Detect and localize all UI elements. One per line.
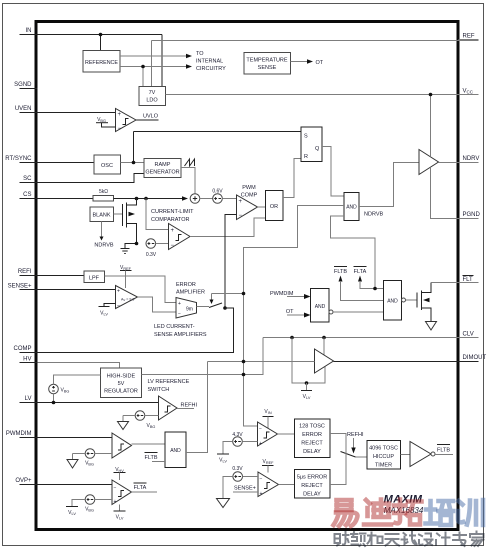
watermark char pei [426,501,454,525]
node DIMOUT input bus tap [242,360,246,364]
watermark text rf antenna expert [335,532,484,547]
svg-text:0.6V: 0.6V [212,189,223,195]
svg-text:DELAY: DELAY [303,492,321,498]
svg-text:DIMOUT: DIMOUT [463,355,487,361]
node CLV branch 1 [290,336,294,340]
pin DIMOUT [459,355,487,362]
svg-text:−: − [171,243,175,249]
svg-text:GENERATOR: GENERATOR [145,170,179,176]
wire CLV rail [263,337,459,339]
node CLV branch 2 [322,336,326,340]
ramp waveform icon [185,159,195,166]
svg-text:R: R [304,154,308,160]
svg-text:FLTB: FLTB [437,448,450,454]
node IN-reference junction [99,33,103,37]
block 128 tosc error reject delay [295,419,331,458]
source VHV of OVP comparator [114,467,126,480]
wire CS after resistor [114,196,189,200]
svg-text:+: + [239,199,243,205]
wire buffer supply left [292,338,325,384]
ground blanking source [121,244,137,254]
wire thermal AND output [333,311,384,313]
watermark char yi [334,500,358,526]
comparator UVLO [116,109,137,133]
svg-text:SENSE+: SENSE+ [234,486,256,492]
svg-text:REFHI: REFHI [347,432,364,438]
svg-text:0.3V: 0.3V [146,252,157,258]
label to internal circuitry [196,51,226,72]
ramp generator block [144,159,181,178]
svg-text:−: − [118,126,122,132]
gate AND thermal-dim [311,289,334,323]
source 0.6V offset [200,189,237,204]
svg-text:VLV: VLV [116,515,124,521]
svg-text:CLV: CLV [463,332,474,338]
ground 0.3V sense [217,499,230,508]
wire buffer supply right [323,338,325,356]
comparator VIN-UV [258,422,278,447]
node regulator output bus tap [242,373,246,377]
svg-text:SENSE AMPLIFIERS: SENSE AMPLIFIERS [154,332,207,338]
svg-text:TIMER: TIMER [375,463,392,469]
pin SGND [14,82,37,89]
svg-text:PWMDIM: PWMDIM [6,431,32,437]
svg-text:LED CURRENT-: LED CURRENT- [154,324,195,330]
svg-text:OSC: OSC [101,163,113,169]
svg-text:OT: OT [286,309,294,315]
svg-text:VBG: VBG [147,423,156,429]
svg-text:FLTB: FLTB [334,269,347,275]
svg-text:COMP: COMP [14,346,32,352]
wire RT/SYNC to OSC [38,162,95,164]
blanking block BLANK [90,207,123,222]
svg-text:FLT: FLT [463,277,474,283]
source 0.3V sense threshold [223,466,258,499]
svg-text:PGND: PGND [463,212,481,218]
pin NDRV [459,156,480,163]
pin HV [20,357,38,363]
regulator high-side 5V [101,368,142,398]
gate AND driver [344,193,359,221]
pin SENSE+ [8,284,38,290]
wire delay output to hiccup switch [330,434,346,453]
node FLTA junction [373,287,377,291]
svg-text:5kΩ: 5kΩ [99,189,108,195]
ground PWMDIM vbg [67,454,78,469]
pin PWMDIM [6,431,38,438]
pin IN [20,28,38,35]
svg-text:9m: 9m [186,307,193,313]
source VBG of PWMDIM comparator [73,449,113,467]
svg-text:5V: 5V [118,381,125,387]
wire REFHI output [177,403,197,409]
label current-limit comparator [151,209,194,223]
wire IN rail [38,35,163,87]
wire fault AND to FLT transistor gate [406,299,418,301]
svg-text:LPF: LPF [89,276,100,282]
gate AND pwm-dim [165,432,186,468]
source VBG of OVP comparator [72,495,112,513]
node CS junction 1 [135,197,139,201]
svg-text:+: + [118,112,122,118]
comparator SENSE short [258,472,279,497]
wire SC input [38,174,145,183]
svg-text:AND: AND [387,299,398,305]
buffer NDRV driver [419,150,439,175]
svg-text:−: − [114,485,117,491]
pin RT/SYNC [5,156,37,163]
svg-text:VLV: VLV [68,510,76,516]
svg-text:NDRVB: NDRVB [364,212,383,218]
svg-text:VBG: VBG [85,461,94,467]
pin UVEN [15,106,38,113]
comparator PWM [237,195,258,220]
svg-text:CS: CS [23,192,31,198]
source VLV of 4.3V [217,454,229,464]
svg-text:IN: IN [26,28,32,34]
wire dimming bus to AND input [244,206,345,427]
svg-text:+: + [260,491,263,497]
source VLV of sense amplifier [99,304,116,317]
svg-text:VBG: VBG [97,117,106,123]
source VLV of OVP comparator [114,505,126,521]
svg-text:+: + [171,228,175,234]
wire UV comparator output [278,433,295,435]
wire FLT output [431,282,459,284]
svg-text:REJECT: REJECT [301,441,323,447]
wire FLTB output [435,445,453,455]
node VCC junction [429,93,433,97]
svg-text:COMPARATOR: COMPARATOR [151,217,190,223]
wire sense comparator output [279,484,295,486]
svg-text:UVLO: UVLO [143,114,159,120]
svg-text:5μs ERROR: 5μs ERROR [297,475,327,481]
node dim bus switch tap [242,292,246,296]
svg-text:RT/SYNC: RT/SYNC [5,156,32,162]
svg-text:REGULATOR: REGULATOR [104,389,138,395]
inverter FLTB driver [410,442,435,467]
svg-text:SC: SC [23,176,32,182]
source VLV of OVP vbg [66,507,78,517]
source VREF of sense amplifier [120,265,132,288]
gate AND fault [384,281,406,321]
wire dim AND output up to DIMOUT [186,362,208,453]
wire UVEN input [38,112,116,114]
comparator current-limit [169,224,191,250]
svg-text:COMP: COMP [241,193,258,199]
svg-text:CURRENT-LIMIT: CURRENT-LIMIT [151,209,194,215]
svg-text:VBG: VBG [61,388,70,394]
svg-text:INTERNAL: INTERNAL [196,59,223,65]
svg-text:AMPLIFIER: AMPLIFIER [176,290,205,296]
wire AND output NDRVB [359,163,419,218]
transistor blanking switch [123,199,137,244]
wire UVLO output [136,114,159,121]
wire current-limit comparator output to OR [190,218,266,237]
svg-text:−: − [239,213,243,219]
wire regulator output to CLV [142,338,264,375]
svg-text:AV = 9.9: AV = 9.9 [121,298,134,303]
wire sense amp output to error amp [138,297,177,312]
svg-text:AND: AND [346,205,357,211]
label error amplifier [176,282,205,296]
svg-text:SENSE: SENSE [258,65,277,71]
wire DIMOUT output [334,361,459,363]
wire DIMOUT input [208,361,315,363]
svg-text:7V: 7V [149,90,156,96]
svg-text:HV: HV [23,357,31,363]
node LV junction [52,401,56,405]
transistor FLT open-drain [417,283,431,322]
svg-text:LDO: LDO [146,98,158,104]
reference block [83,51,120,73]
wire OSC to flipflop S input [134,131,302,133]
comparator REFHI [159,396,178,420]
wire OR output to flipflop R [283,159,301,198]
pin REF [459,34,479,40]
svg-text:+: + [117,289,120,295]
svg-text:128 TOSC: 128 TOSC [299,424,325,430]
label LV reference switch [148,379,190,393]
svg-text:OT: OT [316,60,324,66]
svg-text:OR: OR [270,204,278,210]
svg-text:SWITCH: SWITCH [148,387,170,393]
label SENSE+ input [233,486,258,493]
source VIN of UV comparator [263,409,274,429]
svg-text:VLV: VLV [100,311,108,317]
wire VCC rail [166,95,479,157]
label FLTB input [144,453,165,462]
svg-text:PWM: PWM [242,185,256,191]
svg-text:−: − [117,303,120,309]
label FLTA net [354,267,384,289]
wire Q output to AND [322,147,344,197]
svg-text:UVEN: UVEN [15,106,32,112]
svg-text:REFI: REFI [18,269,32,275]
svg-text:LV: LV [25,396,32,402]
svg-text:0.3V: 0.3V [232,466,243,472]
temperature sense block [244,53,291,75]
ground REFHI vbg [118,416,129,430]
pin OVP+ [15,478,37,485]
pin CS [20,192,38,199]
resistor 5k [93,189,114,201]
wire CS to current-limit comparator [146,199,169,230]
svg-text:BLANK: BLANK [92,213,110,219]
svg-text:VREF: VREF [263,459,275,465]
wire PWM comparator inverting input [225,215,237,309]
source VREF of sense comparator [262,459,274,473]
wire HV input to regulator [38,363,120,369]
pin FLT active-low [459,276,479,284]
node error amp output [223,306,227,310]
svg-text:FLTB: FLTB [144,455,157,461]
wire REFI input [38,275,85,277]
svg-text:VIN: VIN [264,409,271,415]
svg-text:NDRVB: NDRVB [94,243,113,249]
label LED current-sense amplifiers [154,324,207,338]
wire SENSE+ input [38,289,116,291]
svg-text:REF: REF [463,34,475,40]
svg-text:REFERENCE: REFERENCE [85,60,119,66]
watermark char tuo [394,500,422,525]
pin REFI [18,269,38,276]
wire OSC output [121,132,145,163]
flipflop SR [301,127,322,162]
wire PWMDIM comparator output [132,443,166,445]
comparator OVP [112,480,132,505]
node blanking source junction [135,242,139,246]
pin CLV [459,332,479,338]
regulator 7V LDO [139,87,166,106]
svg-text:4096 TOSC: 4096 TOSC [369,446,398,452]
svg-text:VLV: VLV [219,458,227,464]
wire reference output 2 [120,64,192,86]
label REFHI switch control [347,432,364,454]
wire 5us delay output to switch [330,452,346,485]
svg-text:−: − [178,312,181,318]
pin SC [20,176,38,183]
wire NDRV output [439,162,459,164]
svg-text:TO: TO [196,51,204,57]
label PWMDIM internal [270,291,311,299]
wire PWMDIM input [38,437,113,439]
watermark char xun [458,500,483,525]
pin LV [20,396,38,403]
ground FLT transistor [426,322,437,331]
svg-text:FLTA: FLTA [134,485,147,491]
summer current-sum junction [190,194,200,204]
svg-text:HIGH-SIDE: HIGH-SIDE [107,374,136,380]
amplifier current-sense gain 9.9 [116,286,138,310]
switch error amp output [197,294,244,308]
block 5us error reject delay [295,470,331,499]
node CS junction 2 [144,197,148,201]
wire OVP+ input [38,484,113,486]
wire LPF output to error amplifier [105,276,177,303]
pin VCC [459,89,479,95]
wire LV input [38,402,159,404]
svg-text:CIRCUITRY: CIRCUITRY [196,66,226,72]
wire BLANK to NDRVB [94,222,113,249]
svg-text:AND: AND [170,448,181,454]
label FLTB net [334,267,384,301]
svg-text:LV REFERENCE: LV REFERENCE [148,379,190,385]
svg-text:Q: Q [315,146,320,152]
svg-text:VBG: VBG [85,507,94,513]
source VLV of DIMOUT buffer [301,381,312,400]
wire driver to PGND [431,168,459,219]
buffer DIMOUT driver [315,349,334,373]
watermark char di [364,500,391,525]
wire error output to COMP pin [38,308,234,353]
node OSC output junction [132,161,136,165]
opamp error amplifier gm [176,298,197,319]
svg-text:OVP+: OVP+ [15,478,32,484]
wire OT output [291,59,324,66]
svg-text:RAMP: RAMP [155,162,171,168]
svg-text:−: − [259,426,262,432]
svg-text:+: + [178,301,181,307]
node reference-LDO junction [141,65,145,69]
source VBG of UVLO comparator [96,117,116,127]
svg-text:VLV: VLV [303,394,311,400]
svg-text:FLTA: FLTA [354,269,367,275]
pin PGND [459,212,481,219]
pin COMP [14,346,38,353]
switch hiccup [341,452,368,458]
gate OR [266,191,284,221]
svg-text:DELAY: DELAY [303,449,321,455]
svg-text:−: − [260,476,263,482]
label OT internal [286,309,311,318]
wire PWM comparator output to OR [258,206,266,208]
svg-text:+: + [114,499,117,505]
source 4.3V threshold [223,432,258,454]
wire REF rail [152,41,479,87]
svg-text:NDRV: NDRV [463,156,480,162]
svg-text:+: + [259,441,262,447]
label PWM COMP [241,185,258,199]
wire ramp output to summer [181,168,195,194]
svg-text:TEMPERATURE: TEMPERATURE [246,58,287,64]
source VBG of REFHI comparator [123,411,159,429]
logo MAXIM [384,494,424,516]
wire CS input [38,198,94,200]
comparator PWMDIM [112,433,132,458]
svg-text:SENSE+: SENSE+ [8,284,32,290]
svg-text:SGND: SGND [14,82,32,88]
source VBG high-side [49,375,101,403]
block 4096 tosc hiccup timer [367,441,401,470]
oscillator OSC [94,155,121,174]
wire OVP output FLTA [132,483,158,492]
wire AND third input fault loop [331,216,376,289]
svg-text:VCC: VCC [463,89,474,95]
svg-text:HICCUP: HICCUP [373,454,394,460]
wire timer output [401,454,411,456]
wire reference output 1 [120,54,192,58]
filter LPF [84,271,105,283]
svg-text:ERROR: ERROR [302,432,322,438]
svg-text:S: S [304,134,308,140]
svg-text:ERROR: ERROR [176,282,196,288]
svg-text:REJECT: REJECT [301,483,323,489]
svg-text:REFHI: REFHI [181,403,198,409]
svg-text:AND: AND [315,304,326,310]
source 0.3V current-limit threshold [146,239,169,258]
